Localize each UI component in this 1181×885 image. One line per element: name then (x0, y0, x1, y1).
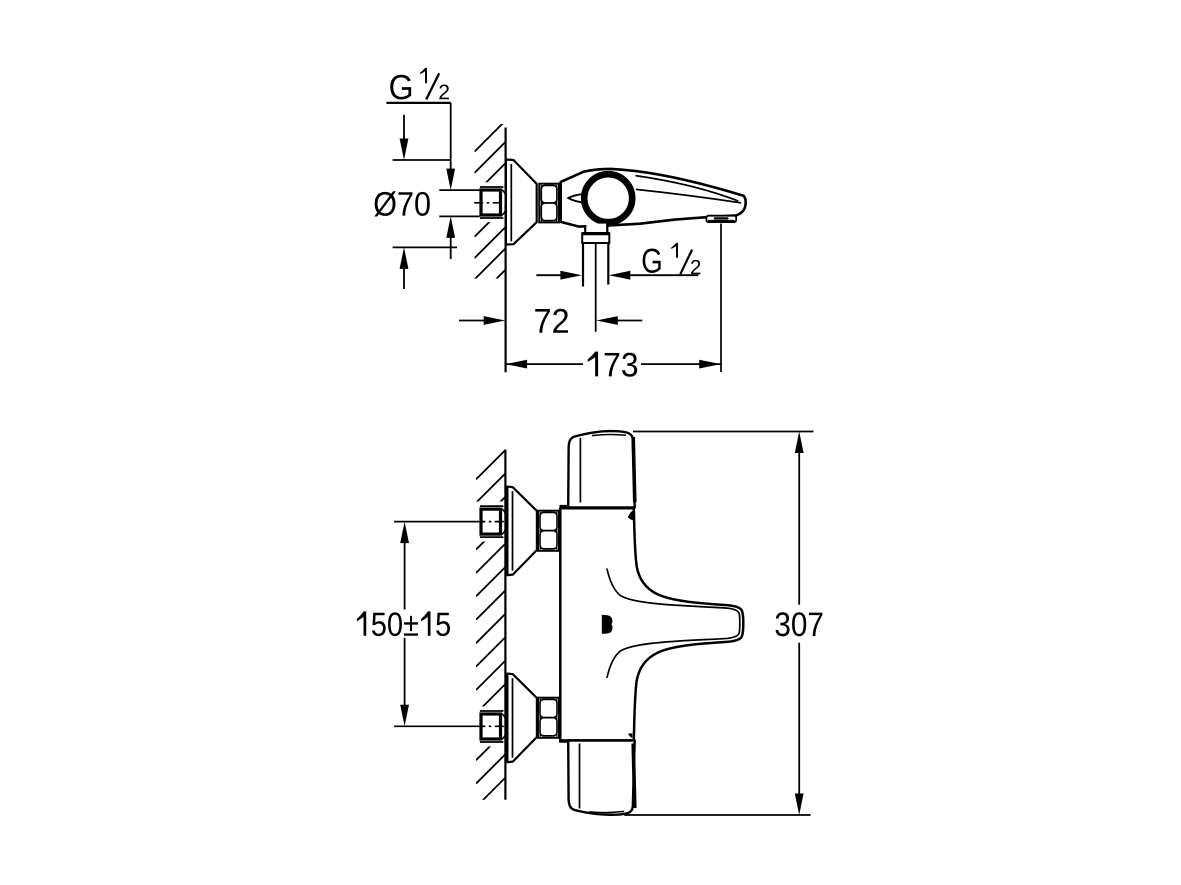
307 dimension extension lines (633, 431, 814, 433)
notches (628, 509, 635, 520)
spout trough inner line with whiskers (607, 569, 740, 679)
outlet collar (582, 233, 609, 243)
G 1/2 dimension arrows at outlet pipe (536, 274, 565, 276)
150+-15 value label (357, 611, 450, 636)
white clearance around wall union square (top view) (474, 182, 504, 222)
G 1/2 label text G (top) (390, 75, 411, 100)
72 dimension arrow at outlet centerline (596, 316, 618, 325)
dia 70 text (374, 191, 430, 216)
escutcheon cone (top view) (506, 160, 537, 245)
thermostat knob ring (top view) (584, 174, 632, 222)
lower escutcheon cone (bottom view) (507, 674, 537, 763)
faucet body (top view, side profile) (561, 169, 746, 227)
upper knob (bottom view) (568, 431, 635, 507)
outlet mark (602, 615, 613, 634)
white clearance around squares (bottom view) (474, 502, 505, 542)
subscript 2 (outlet label) (691, 260, 700, 274)
dia 70 dimension lines (393, 159, 451, 161)
wall union square fitting (top view) (480, 187, 507, 218)
G1/2 witness lines at square top/bottom (439, 189, 479, 191)
superscript 1 (top label) (420, 68, 427, 83)
arrow down to line A (403, 115, 405, 143)
aerator at spout tip (706, 216, 736, 222)
crease line of spout (636, 189, 741, 203)
subscript 2 (top label) (439, 85, 449, 100)
lower wall union square (480, 711, 507, 742)
temperature lever spike (568, 194, 585, 203)
150 dimension vertical line with arrows (400, 522, 409, 544)
307 value label (776, 612, 823, 636)
72 value label (535, 309, 568, 333)
wall line (top view) (505, 128, 507, 373)
body top edge thick / bottom edge thick (560, 505, 635, 508)
arrow up to square bottom (446, 216, 455, 238)
upper hex nut (538, 511, 559, 551)
fraction slash (top label) (426, 73, 439, 99)
extension line from aerator (720, 224, 722, 373)
arrow up to line B (400, 247, 409, 269)
G 1/2 label text G (outlet) (643, 249, 661, 273)
lower knob (bottom view) (568, 741, 635, 815)
fraction slash (outlet label) (680, 250, 692, 275)
wall hatching (top view) (475, 121, 506, 323)
wall hatching (bottom view) (476, 450, 505, 830)
lower hex nut (538, 698, 559, 738)
wall line (bottom view) (504, 450, 506, 800)
307 dimension line with arrows (795, 432, 804, 454)
shower outlet neck (586, 224, 606, 233)
72 dimension arrow at wall (459, 320, 489, 322)
superscript 1 (outlet label) (671, 243, 678, 258)
body column + spout (bottom view) (560, 508, 743, 740)
173 value label (588, 352, 638, 377)
underline of G 1/2 top label (386, 102, 450, 104)
hex connector nut (top view) (539, 184, 559, 223)
outlet pipe G1/2 (582, 243, 584, 287)
leader + arrow down to square top (450, 103, 452, 173)
upper wall union square (480, 506, 507, 537)
upper escutcheon cone (bottom view) (507, 487, 537, 576)
150+-15 dimension lines with dash-dot into squares (394, 521, 476, 523)
inner top line of spout (636, 176, 739, 201)
173 dimension line with arrows (506, 363, 583, 365)
dash-dot centerline through square (top view) (474, 202, 505, 204)
